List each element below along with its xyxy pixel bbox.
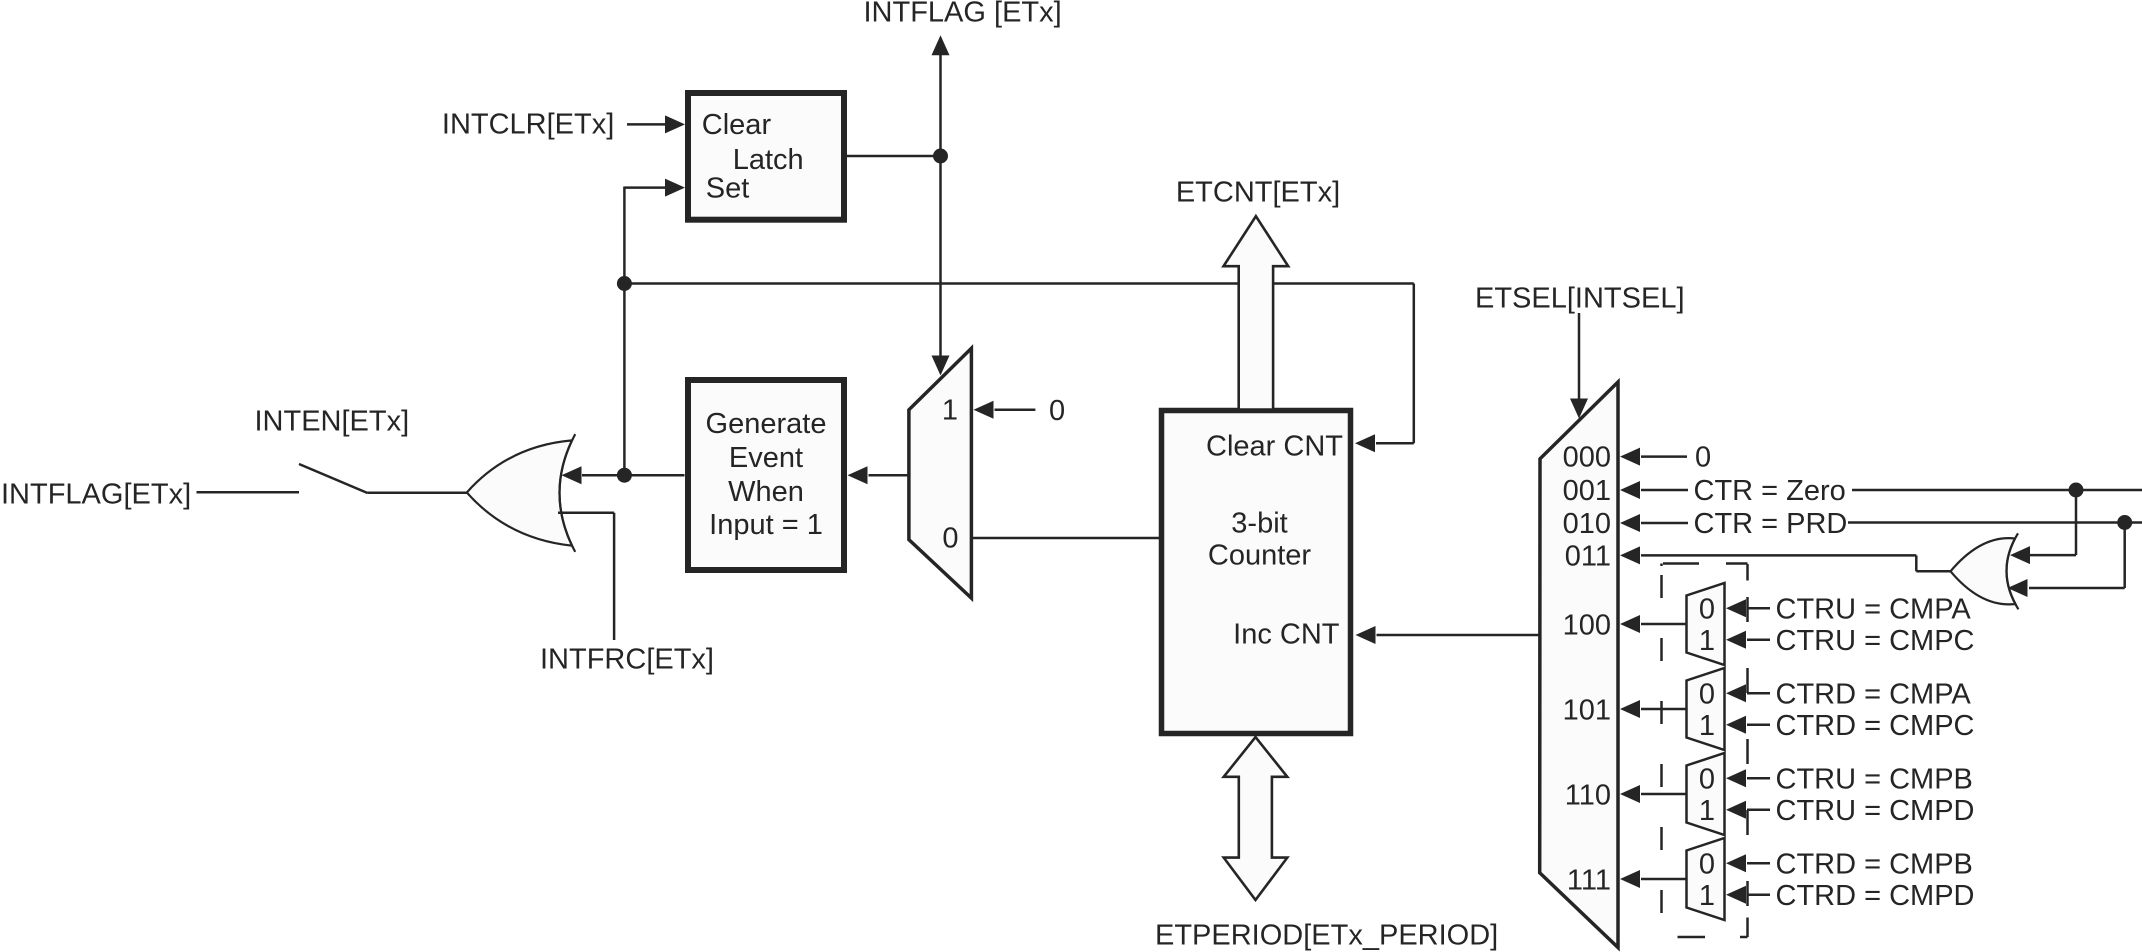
- svg-text:Clear CNT: Clear CNT: [1206, 431, 1343, 463]
- arrowhead into mux M3 input 0: [1726, 599, 1746, 617]
- mux M1 trapezoid: [909, 348, 972, 598]
- arrowhead into mux M6 input 1: [1726, 886, 1746, 904]
- svg-text:001: 001: [1563, 475, 1611, 507]
- svg-text:1: 1: [1699, 710, 1715, 742]
- svg-text:110: 110: [1565, 780, 1611, 812]
- svg-text:010: 010: [1563, 508, 1611, 540]
- or-gate G2 (output left): [1951, 538, 2016, 604]
- svg-text:CTR = Zero: CTR = Zero: [1694, 475, 1846, 507]
- svg-text:CTRD = CMPD: CTRD = CMPD: [1776, 880, 1975, 912]
- svg-text:INTEN[ETx]: INTEN[ETx]: [255, 406, 410, 438]
- wire ETSEL select: [1578, 313, 1581, 399]
- wire CTR = PRD branch down: [2123, 523, 2126, 589]
- arrowhead mux M3 output into mux M2: [1620, 615, 1640, 633]
- block 3-bit Counter: [1162, 411, 1351, 734]
- svg-text:Counter: Counter: [1208, 540, 1312, 572]
- svg-text:Event: Event: [729, 442, 803, 474]
- wire into OR2 input B: [2029, 587, 2125, 590]
- wire mux M6 output: [1641, 878, 1687, 881]
- junction Set/OR input node: [617, 468, 632, 483]
- wire Set vertical down: [623, 187, 626, 476]
- svg-text:100: 100: [1563, 610, 1611, 642]
- wire constant 0 to mux M1: [995, 409, 1036, 412]
- svg-text:CTRD = CMPB: CTRD = CMPB: [1776, 848, 1973, 880]
- svg-text:Clear: Clear: [702, 109, 772, 141]
- junction CTR = Zero branch: [2069, 483, 2084, 498]
- arrowhead OR2 input B: [2008, 579, 2028, 597]
- svg-text:INTCLR[ETx]: INTCLR[ETx]: [442, 109, 614, 141]
- svg-text:CTRU = CMPB: CTRU = CMPB: [1776, 763, 1973, 795]
- arrowhead mux M4 output into mux M2: [1620, 700, 1640, 718]
- wire Set input horizontal: [624, 186, 666, 189]
- wire CTR = Zero branch down: [2075, 490, 2078, 555]
- svg-text:0: 0: [1699, 678, 1715, 710]
- arrowhead into mux M3 input 1: [1726, 631, 1746, 649]
- wire generate-event output to OR input: [582, 474, 685, 477]
- block Generate Event When Input = 1: [688, 380, 844, 570]
- arrowhead into latch Set: [665, 179, 685, 197]
- svg-text:CTRU = CMPA: CTRU = CMPA: [1776, 593, 1972, 625]
- wire into OR2 input A: [2030, 554, 2076, 557]
- arrowhead mux M5 output into mux M2: [1620, 785, 1640, 803]
- arrowhead into mux M5 input 0: [1726, 769, 1746, 787]
- wire CTR = PRD net: [1848, 521, 2142, 524]
- svg-text:CTRD = CMPA: CTRD = CMPA: [1776, 678, 1972, 710]
- svg-text:Latch: Latch: [733, 144, 804, 176]
- svg-text:CTR = PRD: CTR = PRD: [1694, 508, 1848, 540]
- mux M4 trapezoid: [1687, 668, 1725, 750]
- arrowhead into mux M5 input 1: [1726, 801, 1746, 819]
- wire switch to OR output: [368, 491, 468, 494]
- mux M3 trapezoid: [1687, 583, 1725, 665]
- wire Clear CNT horizontal: [624, 282, 1413, 285]
- svg-text:011: 011: [1565, 540, 1611, 572]
- wire 011 step down: [1915, 555, 1918, 571]
- wire latch output to junction: [847, 155, 941, 158]
- arrowhead INTCLR into latch Clear: [665, 115, 685, 133]
- arrowhead into mux M4 input 1: [1726, 716, 1746, 734]
- svg-text:0: 0: [942, 523, 958, 555]
- arrowhead into Inc CNT: [1356, 626, 1376, 644]
- svg-text:ETCNT[ETx]: ETCNT[ETx]: [1176, 177, 1340, 209]
- wire INTFRC vertical: [613, 513, 616, 640]
- switch INTEN arm: [299, 464, 368, 493]
- mux M5 trapezoid: [1687, 753, 1725, 835]
- wire CTRD = CMPB input: [1747, 862, 1770, 865]
- svg-text:1: 1: [1699, 795, 1715, 827]
- svg-text:CTRU = CMPC: CTRU = CMPC: [1776, 625, 1975, 657]
- svg-text:0: 0: [1695, 442, 1711, 474]
- wire INTFLAG stub: [197, 491, 300, 494]
- wire CTRU = CMPC input: [1747, 639, 1770, 642]
- wire input 010: [1641, 522, 1688, 525]
- or-gate G1 (output left): [467, 440, 572, 545]
- arrowhead up to INTFLAG [ETx]: [932, 35, 950, 55]
- bus arrow ETPERIOD (hollow double arrow): [1224, 737, 1288, 900]
- svg-text:000: 000: [1563, 442, 1611, 474]
- wire CTRD = CMPC input: [1747, 724, 1770, 727]
- svg-text:3-bit: 3-bit: [1231, 508, 1287, 540]
- mux M2 trapezoid (8:1 select): [1540, 382, 1618, 948]
- wire big-mux output to Inc CNT: [1377, 634, 1540, 637]
- svg-text:1: 1: [1699, 625, 1715, 657]
- svg-text:Inc CNT: Inc CNT: [1233, 619, 1340, 651]
- svg-text:0: 0: [1699, 763, 1715, 795]
- arrowhead into mux M1 input 1: [974, 401, 994, 419]
- svg-text:INTFLAG[ETx]: INTFLAG[ETx]: [1, 479, 191, 511]
- wire CTRU = CMPA input: [1747, 607, 1770, 610]
- svg-text:Input = 1: Input = 1: [709, 509, 823, 541]
- svg-text:0: 0: [1699, 848, 1715, 880]
- wire INTFRC horizontal into OR: [558, 511, 614, 514]
- svg-text:0: 0: [1699, 593, 1715, 625]
- wire INTFLAG vertical (latch output up/down): [939, 55, 942, 356]
- arrowhead into OR gate input: [562, 466, 582, 484]
- svg-text:ETSEL[INTSEL]: ETSEL[INTSEL]: [1475, 283, 1685, 315]
- arrowhead mux M6 output into mux M2: [1620, 870, 1640, 888]
- wire CTRD = CMPD input: [1747, 894, 1770, 897]
- arrowhead 010: [1620, 514, 1640, 532]
- svg-text:101: 101: [1563, 695, 1611, 727]
- svg-text:CTRU = CMPD: CTRU = CMPD: [1776, 795, 1975, 827]
- wire Clear CNT into counter: [1376, 442, 1414, 445]
- wire input 001: [1641, 489, 1688, 492]
- svg-text:INTFLAG [ETx]: INTFLAG [ETx]: [864, 0, 1062, 29]
- junction CTR = PRD branch: [2117, 515, 2132, 530]
- dashed group box (CMP select muxes): [1662, 564, 1748, 938]
- arrowhead down into mux input 1: [932, 356, 950, 376]
- mux M6 trapezoid: [1687, 838, 1725, 920]
- arrowhead into Clear CNT: [1355, 434, 1375, 452]
- arrowhead 011: [1620, 546, 1640, 564]
- wire INTCLR to latch: [627, 123, 666, 126]
- svg-text:1: 1: [942, 395, 958, 427]
- wire CTRD = CMPA input: [1747, 692, 1770, 695]
- svg-text:INTFRC[ETx]: INTFRC[ETx]: [540, 644, 714, 676]
- svg-text:Set: Set: [706, 173, 750, 205]
- wire input 011 horizontal: [1641, 554, 1916, 557]
- arrowhead into generate-event: [848, 466, 868, 484]
- arrowhead into mux M4 input 0: [1726, 684, 1746, 702]
- svg-text:Generate: Generate: [706, 408, 827, 440]
- wire input 000: [1641, 455, 1687, 458]
- svg-text:1: 1: [1699, 880, 1715, 912]
- wire mux M4 output: [1641, 708, 1687, 711]
- bus arrow ETCNT (hollow up arrow): [1224, 216, 1289, 409]
- svg-text:ETPERIOD[ETx_PERIOD]: ETPERIOD[ETx_PERIOD]: [1155, 920, 1498, 952]
- arrowhead 001: [1620, 481, 1640, 499]
- wire mux M3 output: [1641, 623, 1687, 626]
- wire Clear CNT vertical: [1413, 284, 1416, 444]
- svg-text:CTRD = CMPC: CTRD = CMPC: [1776, 710, 1975, 742]
- wire counter output to mux M1 input 0: [971, 537, 1161, 540]
- wire CTRU = CMPD input: [1747, 809, 1770, 812]
- junction latch-output node: [933, 149, 948, 164]
- wire CTR = Zero net: [1852, 489, 2142, 492]
- junction Set/ClearCNT node: [617, 276, 632, 291]
- svg-text:0: 0: [1049, 395, 1065, 427]
- wire mux M5 output: [1641, 793, 1687, 796]
- latch U1 box Clear/Latch/Set: [688, 93, 844, 220]
- arrowhead 000: [1620, 448, 1640, 466]
- svg-text:When: When: [728, 476, 804, 508]
- wire CTRU = CMPB input: [1747, 777, 1770, 780]
- arrowhead OR2 input A: [2010, 546, 2030, 564]
- wire mux output to generate-event: [869, 474, 909, 477]
- wire 011 to OR2 output: [1916, 570, 1951, 573]
- arrowhead into mux M6 input 0: [1726, 854, 1746, 872]
- arrowhead ETSEL into mux M2: [1570, 399, 1588, 419]
- svg-text:111: 111: [1567, 865, 1611, 897]
